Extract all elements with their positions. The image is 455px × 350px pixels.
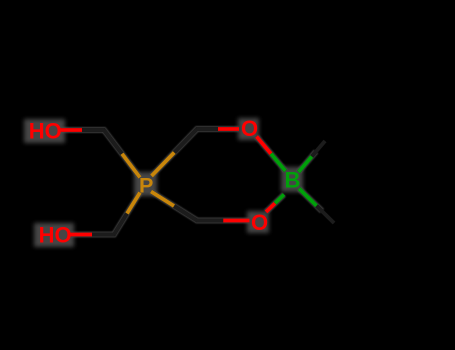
svg-text:P: P — [139, 173, 153, 197]
svg-text:O: O — [241, 116, 258, 141]
wire P half of C1-P bond — [122, 154, 140, 178]
wire B half of B-O3 bond — [275, 195, 284, 204]
wire C3 half of P-C3 bond — [114, 214, 127, 235]
black bond cores (cut fringe centers) — [60, 129, 334, 235]
wire P half of P-C2 bond — [152, 153, 175, 177]
svg-text:O: O — [251, 210, 268, 235]
green (boron) bond halves — [271, 154, 317, 206]
wire O2 half of O2-B bond — [257, 137, 272, 154]
wire P half of P-C3 bond — [127, 193, 140, 214]
wire P half of C4-P bond — [151, 192, 174, 207]
svg-text:HO: HO — [29, 118, 62, 143]
wire C4 half of O3-C4 bond — [197, 219, 223, 222]
svg-text:B: B — [285, 168, 301, 193]
wire O3 half of O3-C4 bond — [223, 219, 249, 223]
wire B half of O2-B bond — [271, 154, 286, 171]
wire O2 half of C2-O2 bond — [218, 127, 239, 131]
wire C1 half of C1-P bond — [104, 130, 122, 154]
wire C2 half of P-C2 bond — [174, 129, 197, 153]
wire C2 half of C2-O2 bond — [197, 127, 218, 130]
wire C6 half of B-C6 bond — [317, 206, 335, 223]
wire B half of B-C6 bond — [299, 189, 317, 206]
wire C1 half of O1-C1 bond — [82, 128, 104, 131]
wire C4 half of C4-P bond — [174, 206, 197, 221]
wire O4 half of C3-O4 bond — [70, 233, 92, 237]
wire B half of B-C5 bond — [299, 157, 312, 173]
gray artifact plates behind letters — [24, 118, 303, 247]
dark (carbon) bond halves: nearly invisible on black like the reference — [82, 129, 334, 235]
wire O3 half of B-O3 bond — [266, 203, 275, 212]
wire C3 half of C3-O4 bond — [92, 233, 114, 236]
gray anti-alias fringe under every bond — [60, 129, 322, 235]
wire O1 half of O1-C1 bond — [60, 128, 82, 132]
orange (phosphorus) bond halves — [122, 153, 174, 214]
wire C5 half of B-C5 bond — [312, 141, 325, 157]
svg-text:HO: HO — [39, 223, 72, 248]
red (oxygen) bond halves — [60, 129, 275, 235]
